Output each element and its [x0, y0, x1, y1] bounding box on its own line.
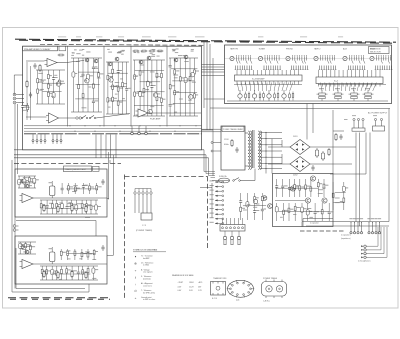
- svg-text:TUNER: TUNER: [259, 48, 266, 50]
- fold line (dashed) bottom 2: [10, 298, 110, 300]
- wire vertical interlink 1: [203, 42, 205, 109]
- preamp title small box: [59, 46, 66, 51]
- wire bus link 4: [110, 135, 112, 158]
- svg-text:to headphones: to headphones: [358, 260, 371, 263]
- RIAA equalizer board ch1 outline: [15, 169, 107, 217]
- cluster EQ ch1 eq parts: [40, 200, 101, 214]
- wire IC1b out: [59, 117, 81, 119]
- svg-text:SELECTOR: SELECTOR: [370, 51, 381, 53]
- wire fuse left: [200, 187, 212, 189]
- wire input to IC1a: [26, 60, 45, 62]
- wire jog: [109, 160, 111, 164]
- eq output jack L: [13, 225, 18, 228]
- connector pin P7: [60, 140, 62, 142]
- wire bridge1 out: [310, 146, 356, 148]
- cluster regulator parts lower: [275, 203, 333, 221]
- fold line (dashed) second row: [19, 40, 396, 43]
- fold line (dashed) step: [125, 175, 208, 177]
- transistor EQ ch1 Q2: [25, 184, 29, 188]
- power trans terminal box: [141, 213, 152, 220]
- capacitor C1: [33, 63, 36, 69]
- AC inlet plug 1: [352, 118, 365, 131]
- op-amp IC1b: [46, 113, 59, 123]
- cluster EQ ch1 upper parts: [61, 183, 102, 194]
- transistor Q206: [268, 204, 273, 209]
- wire secondary to bridge 1: [268, 146, 290, 148]
- wire eq interstage drop: [95, 221, 97, 237]
- wire AC line 1: [355, 133, 357, 222]
- wire snubber top: [333, 130, 344, 132]
- selector fan wires right: [321, 83, 377, 92]
- wire speaker sub-box top: [303, 218, 333, 220]
- svg-text:+: +: [135, 296, 137, 300]
- rotary switch S201b: [258, 55, 281, 69]
- electrolytic cap EQ ch1: [49, 181, 55, 198]
- wire bus drop 1: [32, 134, 34, 139]
- wire partition 1: [67, 46, 69, 127]
- wire eq ch1 link: [107, 198, 109, 200]
- svg-text:1 2 3: 1 2 3: [142, 225, 146, 227]
- phono input jack R: [13, 97, 18, 100]
- wire AC line 4: [369, 133, 371, 222]
- preamp title box: [23, 46, 58, 51]
- bus junction dots: [69, 125, 196, 132]
- transistor Q1: [85, 58, 89, 62]
- wire speaker sub-box left: [302, 219, 304, 227]
- svg-text:D201: D201: [293, 136, 298, 138]
- svg-text:TAPE PB: TAPE PB: [230, 47, 239, 50]
- wire selector to psu 1: [306, 104, 308, 140]
- selector fan wires left: [237, 83, 293, 92]
- wire stub 4: [211, 177, 216, 179]
- resistor EQ ch1 Rc: [71, 204, 73, 212]
- wire AC cross: [330, 173, 366, 175]
- junction label smudge: [85, 217, 90, 218]
- connector pin P2: [36, 140, 38, 142]
- wire bus B drop: [205, 155, 207, 174]
- function selector P.C.B. outline: [225, 45, 392, 104]
- selector busbar left: [235, 75, 303, 81]
- wire jack R: [19, 98, 25, 100]
- switch S1 contacts: [81, 115, 96, 118]
- svg-text:POWER TRANSFORMER: POWER TRANSFORMER: [223, 128, 244, 131]
- transistor Q202: [290, 186, 295, 191]
- IC pinout oval: [227, 280, 255, 297]
- wire bus drop 4: [44, 134, 46, 139]
- busbar pins right: [319, 70, 381, 87]
- RIAA equalizer board ch2 outline: [15, 236, 107, 284]
- wire right outer vertical: [388, 109, 390, 222]
- op-amp IC1a: [45, 59, 58, 67]
- wire psu to speaker line: [301, 222, 303, 227]
- level pot VR1: [238, 90, 250, 101]
- wire bus A to connector: [204, 171, 215, 173]
- wire bus to transformer 1: [202, 128, 222, 130]
- wire jack aux: [19, 102, 25, 104]
- resistor: [141, 50, 148, 52]
- headphone jack contacts: [361, 227, 387, 258]
- wire bottom corner horizontal 2: [16, 288, 85, 290]
- filter capacitor C202: [321, 151, 324, 161]
- wire eq interstage: [16, 220, 96, 222]
- multi-pin connector column: [210, 180, 224, 224]
- capacitor EQ ch2 Cx: [101, 245, 104, 251]
- wire bus C drop: [208, 158, 210, 176]
- power transistor pinout: [262, 280, 287, 299]
- wire pin lead 7: [60, 142, 62, 144]
- level pot VR4: [282, 90, 294, 101]
- resistor pair R254: [363, 88, 374, 101]
- wire to fuse: [212, 180, 219, 182]
- fold line 2 (dashed): [40, 44, 205, 45]
- wire speaker line 2: [306, 225, 389, 227]
- bridge rectifier D202: [290, 157, 310, 172]
- wire below selector: [210, 107, 390, 110]
- fold line (dashed) bottom 1: [8, 297, 110, 299]
- wire preamp-selector 1: [202, 66, 225, 68]
- fold line (dashed) mid: [14, 163, 121, 165]
- cluster input stage parts: [36, 70, 65, 104]
- resistor pair R252: [333, 88, 344, 101]
- svg-text:to speakers: to speakers: [341, 234, 351, 237]
- rotary switch S201d: [314, 55, 337, 69]
- speaker terminal bank A: [349, 218, 363, 234]
- level pot VR3: [267, 90, 279, 101]
- wire bus drop 7: [60, 134, 62, 139]
- connector J2: [131, 132, 134, 135]
- wire left bus 1: [14, 104, 16, 289]
- power supply regulator outline: [273, 174, 334, 227]
- wire vertical interlink 3: [209, 44, 211, 130]
- capacitor C203: [311, 165, 314, 171]
- svg-text:+TEST: +TEST: [178, 282, 185, 284]
- transformer core: [253, 130, 255, 168]
- aux input jack: [13, 101, 18, 104]
- transistor Q9: [184, 55, 188, 59]
- capacitor snubber C: [339, 134, 342, 140]
- wire S1 to IC2: [96, 114, 130, 119]
- wire selector bottom rail: [227, 100, 388, 102]
- wire bus link 2: [100, 135, 102, 158]
- wire bottom corner vertical 2: [15, 248, 17, 289]
- wire speaker line 1: [302, 221, 389, 223]
- wire bus link 3: [105, 135, 107, 158]
- cluster tone control parts: [133, 60, 165, 116]
- resistor EQ ch1 Rd: [85, 205, 87, 213]
- wire bottom corner up: [88, 284, 90, 292]
- svg-text:PHONO: PHONO: [286, 48, 293, 50]
- svg-text:(POWER TRANS): (POWER TRANS): [136, 229, 153, 232]
- transistor Q5: [139, 60, 143, 64]
- wire preamp-selector 0: [202, 64, 225, 66]
- connector pin P6: [56, 140, 58, 142]
- power transformer title box: [222, 126, 244, 131]
- transistor pinout (bottom view): [211, 282, 226, 296]
- wire bottom corner horizontal: [12, 291, 89, 293]
- svg-text:for AMP: for AMP: [143, 257, 150, 260]
- cluster EQ ch2 eq parts: [40, 266, 98, 280]
- capacitor C2: [29, 92, 32, 98]
- electrolytic cap EQ ch2: [49, 247, 55, 264]
- resistor EQ ch2 Ra: [43, 270, 45, 278]
- connector J4: [145, 132, 148, 135]
- svg-text:IC-3 TA7136P: IC-3 TA7136P: [252, 78, 265, 81]
- wire left rail 2: [30, 66, 32, 120]
- wire vertical interlink 2: [206, 42, 208, 131]
- wire pin lead 5: [52, 142, 54, 144]
- transformer secondary winding 2: [260, 131, 262, 169]
- svg-text:( see text ): ( see text ): [143, 284, 152, 287]
- svg-text:11.2V: 11.2V: [189, 287, 194, 289]
- rotary switch S201a: [230, 55, 253, 69]
- wire fuse down: [211, 183, 213, 218]
- wire AC line 2: [359, 133, 361, 227]
- resistor R1: [26, 80, 28, 88]
- resistor pair R251: [317, 88, 328, 101]
- wire left margin down: [13, 75, 15, 95]
- wire pin lead 2: [36, 142, 38, 144]
- transistor EQ ch2 Q1: [20, 245, 24, 249]
- svg-text:( no signal ): ( no signal ): [143, 272, 153, 274]
- rotary switch S201f: [370, 55, 393, 69]
- capacitor inside transformer assy: [235, 147, 238, 153]
- svg-text:E C B: E C B: [212, 298, 218, 300]
- svg-text:TRANSISTORS: TRANSISTORS: [213, 277, 227, 280]
- bus wire 1: [24, 125, 202, 127]
- wire EQ ch1 eq out: [33, 197, 107, 199]
- resistor: [149, 50, 156, 52]
- cluster EQ ch2 upper parts: [60, 249, 98, 260]
- wire preamp-selector 5: [204, 98, 225, 100]
- resistor R201: [328, 148, 330, 156]
- fold line (dashed) vertical: [124, 175, 126, 300]
- wire switch out: [240, 180, 255, 182]
- AC line label smudges: [344, 115, 377, 120]
- transistor Q6: [147, 56, 151, 60]
- transistor Q205: [262, 196, 267, 201]
- transistor EQ ch1 Q1: [20, 179, 24, 183]
- preamplifier P.C.B. assy outline: [23, 46, 202, 150]
- power transformer assy outline: [221, 126, 245, 170]
- wire jack L: [19, 94, 25, 96]
- wire bottom corner vertical: [11, 160, 13, 292]
- resistor R3: [39, 64, 41, 72]
- wire selector mid right: [318, 84, 386, 86]
- bus wire 2: [24, 128, 202, 130]
- rear connector block: [220, 225, 245, 232]
- cluster right mid parts: [332, 182, 348, 210]
- svg-text:60Hz: 60Hz: [224, 144, 229, 146]
- wire to Q1: [66, 61, 84, 63]
- wire bus link 1: [95, 135, 97, 158]
- wire left rail 1: [26, 62, 28, 120]
- wire bus drop 2: [36, 134, 38, 139]
- wire selector rail: [225, 58, 389, 60]
- transformer secondary winding: [258, 131, 260, 169]
- fold caption smudges: [58, 35, 343, 38]
- bridge rectifier D201: [290, 140, 310, 155]
- svg-text:MODE: MODE: [370, 48, 376, 50]
- rotary switch S201e: [343, 55, 366, 69]
- speaker terminal bank B: [367, 218, 381, 234]
- op-amp EQ ch1: [20, 194, 34, 203]
- equalizer title small box: [93, 166, 100, 171]
- cluster input rail parts: [21, 103, 30, 112]
- resistor snubber R: [335, 133, 337, 141]
- cluster tone amp parts: [71, 58, 103, 112]
- wire interlink horiz: [202, 129, 214, 131]
- cluster output stage parts: [169, 58, 199, 116]
- resistor EQ ch1 Ra: [43, 204, 45, 212]
- wire AC line 3: [365, 133, 367, 175]
- rear connector block pins: [222, 218, 244, 229]
- connector pin P5: [52, 140, 54, 142]
- wire secondary to bridge 2: [268, 163, 290, 165]
- wire input to IC1b: [26, 116, 47, 118]
- connector pair on IC1b output: [76, 117, 82, 119]
- connector pin P3: [40, 140, 42, 142]
- resistor: [133, 50, 140, 52]
- svg-text:C-B E-C: C-B E-C: [263, 301, 271, 303]
- cluster filter parts: [106, 62, 131, 114]
- transistor Q201: [310, 176, 315, 181]
- transistor Q2: [94, 59, 98, 63]
- bus wire 4 (heavy): [24, 133, 202, 135]
- wire IC2 out to box edge: [148, 112, 201, 114]
- AC outlet plug 2: [373, 118, 385, 131]
- legend title underline: [133, 251, 166, 253]
- capacitor EQ ch1 Cx: [101, 179, 104, 185]
- wire stub 3: [209, 175, 216, 177]
- wire eq vertical 2: [112, 155, 114, 255]
- op-amp EQ ch2: [20, 260, 34, 269]
- transistor Q4: [115, 57, 119, 61]
- wire selector to psu 2: [312, 104, 314, 134]
- wire snubber drop: [332, 110, 334, 174]
- wire bridge2 out: [310, 163, 352, 165]
- wire selector mid left: [234, 84, 302, 86]
- wire pin lead 4: [44, 142, 46, 144]
- connector pin P4: [44, 140, 46, 142]
- filter capacitor C201: [315, 148, 318, 158]
- transistor Q204: [322, 198, 327, 203]
- svg-text:SYMBOLS IN DIAGRAM: SYMBOLS IN DIAGRAM: [133, 249, 157, 252]
- svg-text:FUSE 2A: FUSE 2A: [219, 175, 227, 178]
- resistor: [157, 50, 164, 52]
- svg-text:(nominal): (nominal): [143, 279, 151, 281]
- busbar pins left: [237, 70, 299, 85]
- wire bus B to connector: [206, 173, 215, 175]
- cluster EQ ch1 input parts: [18, 176, 39, 188]
- svg-text:for SPEC.(5%): for SPEC.(5%): [143, 292, 155, 294]
- transformer primary winding: [248, 131, 250, 169]
- connector pin P1: [32, 140, 34, 142]
- wire bus A drop: [203, 150, 205, 172]
- svg-text:(x2): (x2): [236, 300, 240, 302]
- RCA plug 2: [230, 231, 233, 245]
- rotary switch S201c: [286, 55, 309, 69]
- wire preamp-selector 3: [202, 71, 225, 73]
- transformer primary winding 2: [250, 131, 252, 169]
- svg-text:to REF to chas.: to REF to chas.: [143, 298, 156, 301]
- svg-text:to speaker: to speaker: [310, 222, 319, 225]
- svg-text:D202: D202: [293, 175, 298, 177]
- resistor EQ ch2 Rb: [57, 271, 59, 279]
- cluster EQ ch2 input parts: [18, 242, 36, 254]
- power transformer terminals: [134, 189, 152, 214]
- wire regulator mid rail: [275, 200, 305, 202]
- wire long bus A: [14, 149, 204, 151]
- wire long bus C: [14, 157, 209, 159]
- wire vertical interlink 4: [212, 58, 214, 176]
- svg-text:120V: 120V: [224, 139, 229, 141]
- fold line (dashed) vertical 2: [207, 176, 209, 248]
- wire bus drop 6: [56, 134, 58, 139]
- svg-text:TAPE 2: TAPE 2: [314, 47, 320, 50]
- resistor EQ ch1 Rb: [57, 205, 59, 213]
- wire eq ch2 upper link: [107, 254, 113, 256]
- resistor R5: [58, 54, 65, 56]
- wire pin lead 3: [40, 142, 42, 144]
- transistor Q3: [108, 62, 112, 66]
- svg-text:to GND: to GND: [143, 264, 150, 267]
- wire eq vertical 1: [108, 152, 110, 199]
- svg-text:READINGS IN VOLTAGE: READINGS IN VOLTAGE: [172, 274, 194, 277]
- selector title box: [369, 47, 390, 54]
- wire left bus 2: [17, 104, 19, 174]
- wire left margin top: [14, 74, 22, 76]
- wire preamp-selector 4: [202, 75, 225, 77]
- wire primary top: [245, 132, 248, 134]
- resistor EQ ch2 Rd: [85, 271, 87, 279]
- op-amp IC2 flat amp: [136, 109, 149, 117]
- wire bus link 5: [115, 135, 117, 158]
- wire bus drop 5: [52, 134, 54, 139]
- transistor Q203: [305, 198, 310, 203]
- fuse F1 2A: [219, 178, 230, 183]
- wire bus to transformer 2: [202, 131, 222, 133]
- power switch S2: [233, 178, 241, 182]
- svg-text:(impedance): (impedance): [341, 238, 351, 240]
- transformer connector pins: [211, 142, 221, 153]
- wire EQ ch2 eq out: [33, 263, 107, 265]
- fold line (dashed): [15, 39, 396, 42]
- wire IC1a out: [57, 62, 66, 64]
- svg-text:∅: ∅: [134, 289, 137, 293]
- connector J3: [138, 132, 141, 135]
- resistor inside transformer assy: [231, 139, 233, 147]
- fold dashed speaker area: [300, 230, 345, 232]
- wire long bus B: [14, 154, 206, 156]
- resistor pair R253: [349, 88, 360, 101]
- cluster pre-regulator parts: [239, 193, 267, 220]
- transformer taps: [260, 132, 282, 174]
- wire partition 2: [103, 46, 105, 127]
- svg-text:POWER TRANS: POWER TRANS: [263, 277, 278, 280]
- wire switch to winding: [254, 169, 256, 181]
- resistor EQ ch2 Rc: [71, 270, 73, 278]
- selector busbar right: [316, 77, 383, 84]
- wire bus drop 3: [40, 134, 42, 139]
- phono input jack L: [13, 93, 18, 96]
- svg-text:CB24: CB24: [189, 282, 194, 284]
- svg-text:+: +: [135, 269, 137, 273]
- svg-text:+B25: +B25: [198, 282, 202, 284]
- label smudges preamp top: [71, 49, 194, 57]
- wire pin lead 1: [32, 142, 34, 144]
- wire partition 3: [130, 46, 132, 127]
- eq output jack R: [13, 229, 18, 232]
